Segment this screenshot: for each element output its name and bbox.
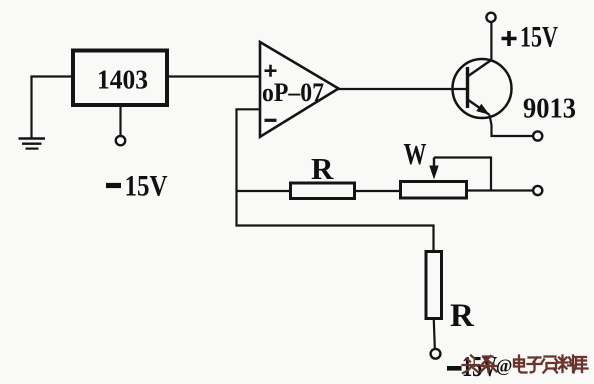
resistor R2	[426, 252, 442, 319]
wire op-amp inverting input feedback	[237, 109, 434, 250]
wire collector to +15V terminal	[490, 22, 492, 60]
watermark glyph 子	[528, 358, 542, 373]
watermark glyph 料	[558, 356, 576, 373]
watermark glyph 条	[481, 356, 497, 372]
svg-text:9013: 9013	[523, 93, 576, 125]
watermark glyph 资	[542, 357, 559, 373]
label -15V bottom	[447, 366, 462, 371]
label -15V left	[106, 183, 121, 188]
svg-text:15V: 15V	[520, 21, 558, 54]
wire R1 to W	[356, 190, 399, 192]
potentiometer W body	[401, 182, 467, 199]
watermark glyph 电	[514, 356, 527, 373]
wire R2 to -15V terminal	[434, 320, 435, 348]
watermark glyph 头	[463, 356, 480, 374]
potentiometer wiper arrow	[433, 158, 435, 169]
svg-text:R: R	[311, 151, 334, 186]
watermark glyph 库	[574, 357, 588, 373]
ground	[19, 139, 46, 149]
transistor collector	[468, 60, 493, 77]
terminal emitter output	[533, 131, 542, 140]
transistor base bar	[466, 67, 469, 108]
svg-text:15V: 15V	[125, 170, 168, 203]
wire wiper loop to right end	[434, 158, 491, 191]
svg-text:W: W	[404, 136, 427, 171]
label +15V	[502, 31, 517, 46]
svg-text:R: R	[450, 298, 475, 334]
svg-text:oP–07: oP–07	[262, 78, 324, 107]
watermark 头条@电子资料库	[463, 356, 588, 376]
op-amp - input mark	[265, 119, 277, 122]
regulator U1 1403 box	[73, 51, 167, 106]
resistor R1	[291, 183, 355, 199]
op-amp U2 OP-07	[260, 42, 339, 137]
transistor emitter with arrow	[468, 100, 490, 115]
wire op-amp output to transistor base	[338, 88, 466, 90]
transistor Q1	[453, 59, 512, 118]
terminal -15V left	[116, 136, 125, 145]
terminal W output	[533, 186, 542, 195]
wire 1403 output to op-amp + input	[169, 75, 260, 77]
terminal -15V bottom	[431, 349, 441, 359]
svg-text:@: @	[496, 356, 512, 376]
wire W to output terminal	[468, 189, 533, 191]
op-amp + input mark	[265, 65, 277, 77]
wire emitter to output terminal	[490, 115, 534, 136]
terminal +15V	[486, 13, 495, 22]
wire ground to 1403 input	[32, 77, 72, 139]
wire branch to R1	[237, 190, 290, 192]
wire 1403 to -15V terminal	[119, 107, 121, 136]
svg-text:1403: 1403	[97, 65, 148, 95]
